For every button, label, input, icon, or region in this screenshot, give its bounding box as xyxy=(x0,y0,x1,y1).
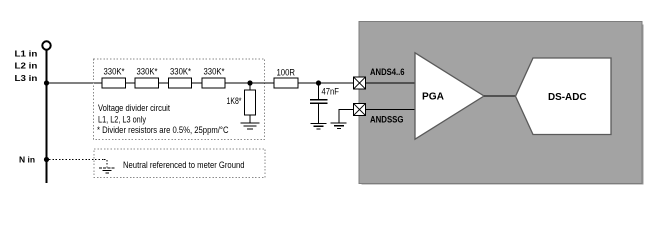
svg-text:L3 in: L3 in xyxy=(15,73,38,83)
wire (pad ANDSSG to PGA input) xyxy=(365,109,415,111)
op-amp U2 PGA (gain amplifier triangle) xyxy=(415,53,484,139)
wire (R3 to R4) xyxy=(192,82,203,84)
wire (tap down to R5) xyxy=(249,83,251,90)
label 330K* (R2) xyxy=(137,67,158,77)
wire (tap down to C1) xyxy=(318,83,320,100)
label L1, L2, L3 only xyxy=(98,114,146,125)
svg-text:PGA: PGA xyxy=(422,92,444,103)
node N (junction dot on bus at neutral rail) xyxy=(44,157,49,162)
resistor R5 1K8 xyxy=(245,90,256,115)
label 330K* (R3) xyxy=(170,67,191,77)
node L3 (junction dot on bus at main rail) xyxy=(44,80,49,85)
resistor R3 330K xyxy=(169,78,192,88)
pad P1 ANDS4..6 (X-box input pad) xyxy=(354,77,366,89)
svg-text:330K*: 330K* xyxy=(137,67,158,77)
terminal T1 (L input open circle) xyxy=(42,41,50,49)
svg-text:47nF: 47nF xyxy=(322,86,340,96)
label ANDS4..6 xyxy=(370,67,405,78)
wire (C1 to ground) xyxy=(318,103,320,123)
wire (dotted stem into neutral ground symbol) xyxy=(104,160,107,168)
label 1K8* xyxy=(227,96,242,106)
ground (neutral reference, dashed) xyxy=(99,168,115,173)
svg-text:L1, L2, L3 only: L1, L2, L3 only xyxy=(98,114,146,125)
resistor R4 330K xyxy=(202,78,225,88)
wire (R1 to R2) xyxy=(126,82,136,84)
svg-text:DS-ADC: DS-ADC xyxy=(548,92,587,103)
resistor R6 100R xyxy=(274,78,298,88)
svg-text:330K*: 330K* xyxy=(170,67,191,77)
wire (main rail L3 junction to R1) xyxy=(47,82,103,84)
label 330K* (R1) xyxy=(104,67,125,77)
wire (R2 to R3) xyxy=(159,82,169,84)
block U3 DS-ADC (sigma-delta ADC) xyxy=(516,58,612,135)
wire (R5 to ground) xyxy=(249,115,251,123)
svg-text:L1 in: L1 in xyxy=(15,49,38,59)
label L2 in xyxy=(15,61,38,71)
dashed box (neutral note enclosure) xyxy=(94,149,265,178)
svg-text:* Divider resistors are 0.5%,: * Divider resistors are 0.5%, 25ppm/°C xyxy=(97,125,229,136)
svg-text:100R: 100R xyxy=(277,68,296,78)
wire (pad ANDS4..6 to PGA input) xyxy=(365,82,415,84)
ground (below R5) xyxy=(241,123,260,129)
svg-text:Neutral referenced to meter Gr: Neutral referenced to meter Ground xyxy=(123,160,245,171)
label L3 in xyxy=(15,73,38,83)
svg-text:Voltage divider circuit: Voltage divider circuit xyxy=(98,103,170,114)
dashed box (voltage divider enclosure) xyxy=(94,59,265,140)
svg-text:ANDSSG: ANDSSG xyxy=(370,115,404,126)
label L1 in xyxy=(15,49,38,59)
label ANDSSG xyxy=(370,115,404,126)
svg-text:ANDS4..6: ANDS4..6 xyxy=(370,67,405,78)
label 47nF xyxy=(322,86,340,96)
svg-text:N in: N in xyxy=(19,155,35,165)
wire (neutral dotted rail from N junction) xyxy=(49,159,104,161)
resistor R2 330K xyxy=(135,78,159,88)
label 330K* (R4) xyxy=(204,67,225,77)
label * Divider resistors are 0.5%, 25ppm/degC xyxy=(97,125,229,136)
wire (100R to pad ANDS4..6) xyxy=(298,82,354,84)
wire (PGA output to DS-ADC) xyxy=(484,95,516,97)
label N in xyxy=(19,155,35,165)
node filter tap (junction dot above 47nF) xyxy=(316,80,321,85)
wire (vertical input bus from terminal down) xyxy=(46,50,48,183)
svg-text:330K*: 330K* xyxy=(204,67,225,77)
wire (ANDSSG pad to ground: left then down) xyxy=(339,110,354,123)
svg-text:330K*: 330K* xyxy=(104,67,125,77)
svg-text:L2 in: L2 in xyxy=(15,61,38,71)
label DS-ADC xyxy=(548,92,587,103)
node divider tap (junction dot above 1K8) xyxy=(247,80,252,85)
ground (ANDSSG reference) xyxy=(331,123,347,128)
capacitor C1 47nF xyxy=(310,100,328,104)
wire (R4 to 100R through divider tap) xyxy=(225,82,274,84)
label Neutral referenced to meter Ground xyxy=(123,160,245,171)
ground (below C1) xyxy=(311,124,327,129)
label 100R xyxy=(277,68,296,78)
label PGA xyxy=(422,92,444,103)
IC block U1 (shaded ASIC area) xyxy=(359,22,644,185)
svg-text:1K8*: 1K8* xyxy=(227,96,242,106)
label Voltage divider circuit xyxy=(98,103,170,114)
pad P2 ANDSSG (X-box ground sense pad) xyxy=(354,104,366,116)
resistor R1 330K xyxy=(102,78,126,88)
